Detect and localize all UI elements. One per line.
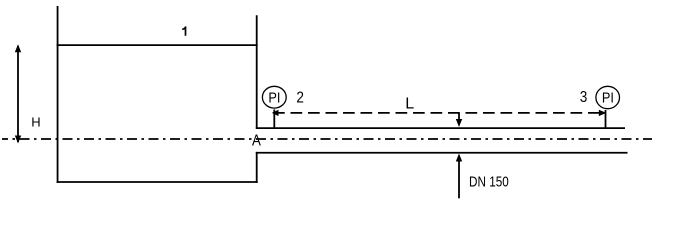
svg-text:PI: PI — [602, 89, 614, 106]
svg-text:A: A — [252, 133, 261, 150]
svg-text:H: H — [31, 115, 40, 130]
svg-text:L: L — [405, 95, 414, 112]
svg-text:PI: PI — [268, 88, 280, 105]
svg-text:3: 3 — [580, 89, 588, 106]
svg-text:2: 2 — [296, 89, 304, 106]
svg-text:DN 150: DN 150 — [469, 173, 509, 189]
